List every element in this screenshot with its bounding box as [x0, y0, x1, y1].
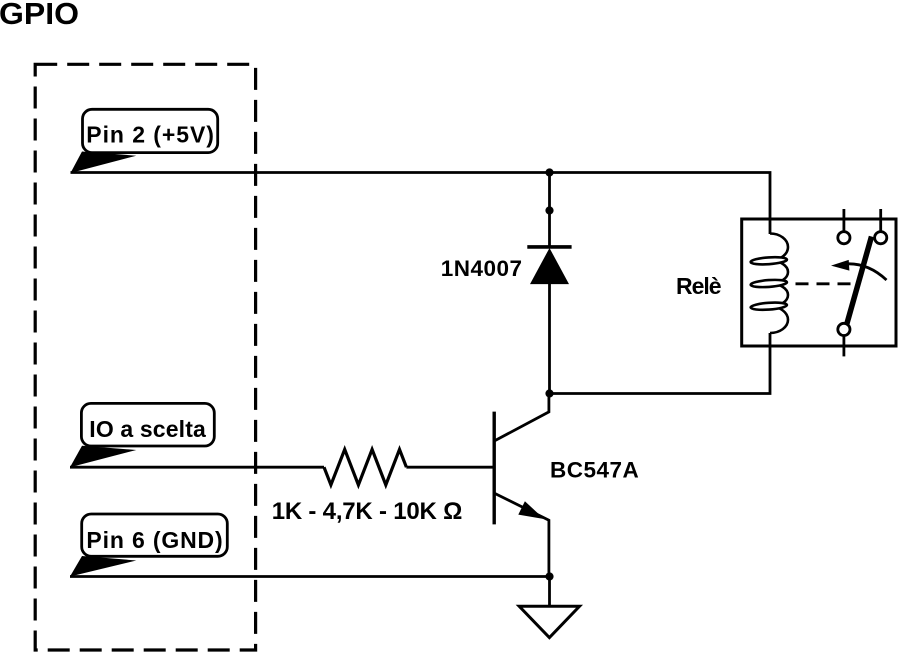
relay contact terminal top right — [875, 232, 887, 244]
svg-text:IO a scelta: IO a scelta — [89, 416, 206, 442]
relay contact pin stub top right — [879, 209, 882, 232]
svg-text:Pin 6 (GND): Pin 6 (GND) — [86, 527, 222, 553]
svg-text:Relè: Relè — [676, 273, 722, 299]
diode D1 1N4007 — [527, 247, 571, 284]
transistor Q1 emitter lead — [494, 493, 549, 576]
relay contact pin stub bottom — [843, 336, 846, 357]
wire +5V rail — [71, 173, 771, 235]
relay coil L1 — [750, 234, 788, 334]
junction node emitter-gnd — [545, 572, 553, 580]
ground symbol — [519, 606, 579, 637]
diode pin dot — [545, 206, 553, 214]
wire diode top branch — [548, 173, 551, 247]
GPIO connector dashed box — [35, 64, 255, 650]
svg-text:1K - 4,7K - 10K Ω: 1K - 4,7K - 10K Ω — [272, 498, 463, 525]
resistor R1 — [324, 449, 406, 485]
transistor Q1 emitter arrow — [518, 501, 544, 519]
label Pin 2 (+5V) — [71, 109, 218, 173]
junction node top tee — [545, 168, 553, 176]
transistor Q1 collector lead — [494, 394, 549, 442]
svg-text:BC547A: BC547A — [550, 457, 639, 482]
relay contact terminal top left — [838, 232, 850, 244]
wire diode bottom branch — [548, 284, 551, 394]
svg-text:Pin 2 (+5V): Pin 2 (+5V) — [86, 122, 214, 148]
wire IO to resistor — [70, 466, 324, 469]
label IO a scelta — [70, 403, 214, 467]
relay contact terminal bottom — [838, 323, 850, 335]
wire GND rail — [70, 575, 550, 578]
svg-text:1N4007: 1N4007 — [441, 256, 522, 281]
wire to ground — [548, 577, 551, 608]
wire resistor to base — [406, 466, 494, 469]
wire relay bottom to collector node — [550, 333, 771, 394]
relay box — [742, 219, 896, 346]
relay contact pin stub top left — [843, 209, 846, 232]
relay actuation dashed link — [796, 282, 852, 285]
relay switch lever — [847, 237, 872, 325]
svg-text:GPIO: GPIO — [0, 0, 79, 31]
label Pin 6 (GND) — [70, 514, 227, 577]
junction node collector tee — [545, 389, 553, 397]
transistor Q1 base bar — [493, 412, 496, 525]
relay actuation arrow — [831, 260, 887, 280]
